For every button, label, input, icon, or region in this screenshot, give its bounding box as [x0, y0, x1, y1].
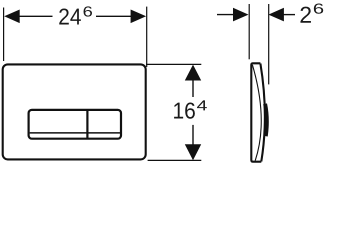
- height dim line upper segment: [192, 78, 194, 97]
- width dim line left segment: [17, 15, 53, 17]
- thickness dim line left segment: [217, 14, 235, 16]
- thickness dim arrow pointing right: [233, 8, 249, 22]
- plate outline (front view): [3, 64, 146, 159]
- height dim arrow down: [185, 144, 201, 160]
- thickness dim line right segment: [282, 14, 295, 16]
- extension line left (thickness dim): [248, 4, 250, 59]
- side view front face curve: [260, 64, 264, 162]
- height dim line lower segment: [192, 125, 194, 147]
- side view back edge: [251, 63, 261, 161]
- thickness dim text superscript 6: [314, 3, 323, 13]
- button divider: [86, 110, 88, 139]
- thickness dim text 2: [300, 7, 310, 23]
- extension line bottom (height dim): [148, 159, 202, 161]
- extension line top (height dim): [146, 63, 201, 65]
- width dim text 24: [59, 8, 81, 24]
- width dim arrow left: [4, 10, 20, 24]
- button inner bottom line: [30, 132, 120, 134]
- button outer frame: [29, 110, 121, 139]
- extension line right (width dim): [146, 7, 148, 67]
- height dim text superscript 4: [197, 100, 207, 110]
- width dim arrow right: [131, 10, 147, 24]
- width dim text superscript 6: [84, 6, 92, 16]
- extension line right (thickness dim): [268, 4, 270, 84]
- thickness dim arrow pointing left: [268, 8, 284, 22]
- width dim line right segment: [96, 15, 133, 17]
- height dim text 16: [174, 102, 195, 118]
- height dim arrow up: [185, 65, 201, 81]
- side view button bulge: [265, 104, 267, 136]
- side view inner surface line: [252, 65, 261, 161]
- extension line left (width dim): [3, 8, 5, 62]
